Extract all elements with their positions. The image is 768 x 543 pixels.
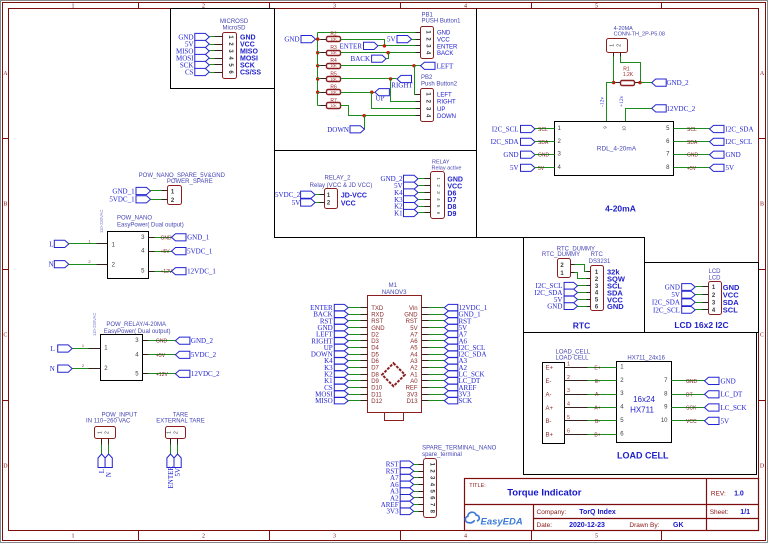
- svg-text:LEFT: LEFT: [437, 62, 454, 70]
- svg-text:POW_RELAY/4-20MA: POW_RELAY/4-20MA: [106, 322, 166, 328]
- svg-text:I2C_SCL: I2C_SCL: [492, 125, 519, 133]
- svg-text:E-: E-: [595, 379, 600, 385]
- svg-text:5V: 5V: [174, 468, 182, 477]
- svg-text:1.0: 1.0: [734, 490, 744, 497]
- svg-text:RELAY_2: RELAY_2: [325, 176, 352, 182]
- svg-text:D7: D7: [371, 366, 379, 372]
- group box load-cell section: [524, 333, 757, 475]
- wire R5 to RIGHT net: [341, 78, 397, 80]
- svg-text:A2: A2: [410, 366, 418, 372]
- svg-text:10K: 10K: [331, 38, 338, 42]
- svg-text:HX711_24x16: HX711_24x16: [627, 356, 665, 362]
- svg-text:2: 2: [567, 375, 570, 381]
- svg-text:5V: 5V: [410, 326, 417, 332]
- svg-text:4-20mA: 4-20mA: [605, 204, 636, 214]
- svg-text:A-: A-: [595, 392, 600, 398]
- svg-text:10K: 10K: [331, 77, 338, 81]
- group box RTC section: [477, 237, 524, 239]
- svg-text:D8: D8: [371, 372, 379, 378]
- svg-text:10: 10: [661, 418, 668, 424]
- svg-text:1: 1: [166, 431, 172, 434]
- svg-text:A7: A7: [410, 332, 418, 338]
- svg-text:10K: 10K: [331, 91, 338, 95]
- svg-text:D9: D9: [371, 379, 379, 385]
- svg-text:SDA: SDA: [538, 140, 549, 146]
- svg-text:GND: GND: [538, 153, 550, 159]
- svg-text:CS: CS: [185, 68, 194, 76]
- svg-text:A: A: [3, 71, 8, 77]
- resistor R2 10K: [321, 39, 327, 41]
- svg-text:L: L: [51, 345, 55, 353]
- svg-text:R5: R5: [330, 71, 337, 77]
- svg-text:N: N: [48, 261, 53, 269]
- svg-text:LCD: LCD: [708, 276, 721, 282]
- svg-text:A6: A6: [410, 339, 418, 345]
- svg-text:PUSH Button1: PUSH Button1: [422, 19, 462, 25]
- svg-text:GND: GND: [607, 302, 624, 311]
- svg-text:IN 110~260 VAC: IN 110~260 VAC: [86, 418, 131, 424]
- group box LCD section: [645, 263, 759, 333]
- svg-text:BACK: BACK: [437, 51, 453, 57]
- svg-text:Torque Indicator: Torque Indicator: [507, 488, 582, 499]
- svg-text:GND: GND: [721, 377, 736, 385]
- svg-text:LCD 16x2 I2C: LCD 16x2 I2C: [674, 320, 728, 330]
- svg-text:R3: R3: [330, 45, 337, 51]
- M1 right pin A2 net A2: [422, 367, 429, 369]
- svg-text:5V: 5V: [538, 166, 545, 172]
- svg-text:GND_1: GND_1: [187, 234, 210, 242]
- M1 right pin A1 net LC_SCK: [422, 374, 429, 376]
- svg-text:TorQ Index: TorQ Index: [579, 509, 616, 516]
- svg-text:E+: E+: [546, 366, 554, 372]
- net LEFT tag: [421, 62, 436, 69]
- svg-text:VCC: VCC: [437, 38, 450, 44]
- svg-text:VCC: VCC: [240, 42, 255, 49]
- svg-text:Drawn By:: Drawn By:: [629, 522, 659, 529]
- svg-text:ENTER: ENTER: [437, 44, 458, 50]
- svg-text:B: B: [3, 202, 7, 208]
- svg-text:MicroSD: MicroSD: [222, 26, 246, 32]
- net 5V tag vertical: [177, 439, 179, 445]
- wire GND bus vertical: [317, 33, 319, 106]
- svg-text:B+: B+: [546, 432, 554, 438]
- svg-text:1: 1: [72, 4, 75, 10]
- resistor R6 10K: [318, 92, 327, 94]
- svg-text:+5V: +5V: [687, 166, 697, 172]
- M1 right pin 3V3 net 3V3: [422, 394, 429, 396]
- svg-text:+5V: +5V: [161, 249, 171, 255]
- svg-text:REF: REF: [406, 386, 418, 392]
- IC RDL_4-20mA: [555, 122, 674, 176]
- svg-text:2: 2: [105, 431, 111, 434]
- group box relay section: [275, 151, 477, 238]
- svg-text:4: 4: [464, 534, 467, 540]
- svg-text:A3: A3: [410, 359, 418, 365]
- svg-text:spare_terminal: spare_terminal: [422, 452, 462, 458]
- group box push-button section: [274, 9, 276, 151]
- svg-text:D11: D11: [371, 392, 382, 398]
- svg-text:PB2: PB2: [421, 75, 433, 81]
- svg-text:BACK: BACK: [351, 55, 370, 63]
- svg-text:LC_SCK: LC_SCK: [721, 404, 747, 412]
- M1 right pin A6 net A6: [422, 340, 429, 342]
- svg-text:10K: 10K: [331, 64, 338, 68]
- svg-text:D3: D3: [371, 339, 379, 345]
- svg-text:B+: B+: [594, 432, 600, 438]
- svg-text:B-: B-: [546, 419, 552, 425]
- svg-text:12VDC_2: 12VDC_2: [191, 370, 220, 378]
- svg-text:UP: UP: [376, 95, 385, 103]
- wire R7 to DOWN net: [341, 106, 416, 116]
- M1 right pin A0 net LC_DT: [422, 380, 429, 382]
- svg-text:MISO: MISO: [240, 49, 258, 56]
- svg-text:SPARE_TERMINAL_NANO: SPARE_TERMINAL_NANO: [422, 446, 497, 452]
- svg-text:GND: GND: [726, 151, 741, 159]
- svg-text:I2C_SCL: I2C_SCL: [653, 306, 680, 314]
- NANOV3 diamond logo: [382, 363, 405, 386]
- svg-text:LEFT: LEFT: [437, 92, 452, 98]
- M1 right pin 5V net 5V: [422, 327, 429, 329]
- wire conn pin1 down: [613, 53, 615, 57]
- svg-text:1: 1: [97, 431, 103, 434]
- svg-text:SCK: SCK: [240, 63, 255, 70]
- svg-text:12VDC_1: 12VDC_1: [187, 268, 216, 276]
- svg-text:+5V: +5V: [156, 353, 166, 359]
- svg-text:1: 1: [72, 534, 75, 540]
- svg-text:D9: D9: [447, 211, 456, 218]
- svg-text:5V: 5V: [510, 164, 519, 172]
- svg-text:POWER_SPARE: POWER_SPARE: [167, 179, 213, 185]
- IC RTC DS3231: [591, 266, 604, 311]
- svg-text:5VDC_1: 5VDC_1: [109, 196, 135, 204]
- NANOV3 usb notch: [385, 413, 404, 421]
- svg-text:SCL: SCL: [723, 306, 738, 315]
- svg-text:3: 3: [567, 388, 570, 394]
- resistor R4 10K: [318, 65, 327, 67]
- svg-text:+12V: +12V: [156, 372, 168, 378]
- svg-text:LOAD CELL: LOAD CELL: [617, 451, 669, 461]
- svg-text:LOAD_CELL: LOAD_CELL: [556, 349, 591, 355]
- svg-text:4: 4: [464, 4, 467, 10]
- svg-text:E+: E+: [594, 366, 600, 372]
- wire RIGHT to PB2 pin2: [391, 79, 416, 102]
- svg-text:12VDC_2: 12VDC_2: [667, 105, 696, 113]
- svg-text:R6: R6: [330, 85, 337, 91]
- svg-text:EXTERNAL TARE: EXTERNAL TARE: [156, 418, 205, 424]
- svg-text:A4: A4: [410, 352, 418, 358]
- svg-text:ENTER: ENTER: [339, 42, 362, 50]
- svg-text:A: A: [760, 71, 765, 77]
- svg-text:B: B: [760, 202, 764, 208]
- svg-text:D: D: [760, 464, 765, 470]
- wire R2 to ENTER net: [341, 40, 385, 46]
- svg-text:A+: A+: [594, 406, 600, 412]
- svg-text:RTC_DUMMY: RTC_DUMMY: [542, 252, 580, 258]
- resistor R3 10K: [318, 52, 327, 54]
- svg-text:Relay (VCC & JD VCC): Relay (VCC & JD VCC): [310, 183, 373, 189]
- svg-text:EasyPower( Dual output): EasyPower( Dual output): [117, 222, 184, 228]
- svg-text:-12v: -12v: [600, 97, 606, 107]
- svg-text:B-: B-: [595, 419, 600, 425]
- svg-text:Vin: Vin: [409, 306, 418, 312]
- svg-text:D5: D5: [371, 352, 379, 358]
- svg-text:3V3: 3V3: [387, 508, 400, 516]
- svg-text:A+: A+: [546, 406, 554, 412]
- resistor R7 10K: [318, 105, 327, 107]
- junction dots on GND bus: [316, 37, 319, 40]
- svg-text:R4: R4: [330, 58, 337, 64]
- svg-text:UP: UP: [437, 107, 445, 113]
- svg-text:GND: GND: [687, 153, 699, 159]
- net GND_2 tag: [641, 82, 652, 84]
- svg-text:GND: GND: [371, 326, 385, 332]
- svg-text:A1: A1: [410, 372, 418, 378]
- EasyEDA logo: [465, 512, 479, 523]
- svg-text:GND: GND: [503, 151, 518, 159]
- svg-text:10: 10: [622, 126, 627, 131]
- svg-text:DS3231: DS3231: [589, 259, 611, 265]
- svg-text:D6: D6: [371, 359, 379, 365]
- svg-text:+12v: +12v: [619, 95, 625, 107]
- svg-text:E-: E-: [546, 379, 552, 385]
- svg-text:Relay active: Relay active: [432, 166, 462, 172]
- svg-text:I2C_SDA: I2C_SDA: [726, 125, 754, 133]
- M1 right pin RST net RST: [422, 320, 429, 322]
- svg-text:+12V: +12V: [161, 269, 173, 275]
- svg-text:POW_NANO: POW_NANO: [117, 215, 152, 221]
- M1 right pin A3 net A3: [422, 360, 429, 362]
- svg-text:1.2K: 1.2K: [623, 72, 634, 78]
- svg-text:DOWN: DOWN: [327, 126, 349, 134]
- svg-text:6: 6: [567, 428, 570, 434]
- M1 right pin REF net AREF: [422, 387, 429, 389]
- svg-text:GND: GND: [437, 31, 451, 37]
- IC HX711: [617, 362, 672, 443]
- M1 right pin D13 net SCK: [422, 400, 429, 402]
- svg-text:D: D: [3, 464, 8, 470]
- svg-text:1/1: 1/1: [740, 509, 750, 516]
- svg-text:2020-12-23: 2020-12-23: [569, 522, 605, 529]
- wire LEFT to PB2 pin1: [415, 66, 416, 95]
- svg-text:16x24: 16x24: [633, 395, 655, 404]
- svg-text:GND: GND: [240, 35, 256, 42]
- svg-text:K1: K1: [394, 209, 403, 217]
- svg-text:R2: R2: [330, 32, 337, 38]
- wire RTC_DUMMY pin2 to DS3231 pin1: [571, 264, 575, 266]
- wire 12VDC_2 to RDL pin10: [626, 109, 652, 122]
- svg-text:MICROSD: MICROSD: [220, 19, 249, 25]
- svg-text:MISO: MISO: [315, 397, 333, 405]
- svg-text:GND: GND: [686, 379, 698, 385]
- svg-text:N: N: [105, 472, 113, 477]
- junction R1 left: [612, 81, 615, 84]
- wire UP to PB2 pin3: [372, 93, 416, 109]
- svg-text:3: 3: [333, 4, 336, 10]
- svg-text:10K: 10K: [331, 51, 338, 55]
- svg-text:TARE: TARE: [173, 412, 189, 418]
- svg-text:5VDC_1: 5VDC_1: [187, 248, 213, 256]
- wire R3 to PB1 pin4: [341, 52, 416, 54]
- net L tag vertical: [101, 439, 103, 445]
- svg-text:110-230VAC: 110-230VAC: [99, 210, 104, 233]
- wire conn pin2 to R1 right: [620, 53, 622, 57]
- svg-text:I2C_SCL: I2C_SCL: [726, 138, 753, 146]
- svg-text:HX711: HX711: [630, 405, 654, 414]
- M1 right pin GND net GND_1: [422, 314, 429, 316]
- title block frame: [465, 479, 759, 531]
- svg-text:RTC: RTC: [573, 320, 590, 330]
- svg-text:CS/SS: CS/SS: [240, 70, 261, 77]
- svg-text:VCC: VCC: [341, 201, 356, 208]
- svg-text:A0: A0: [410, 379, 418, 385]
- svg-text:DOWN: DOWN: [437, 114, 456, 120]
- svg-text:D2: D2: [371, 332, 379, 338]
- svg-text:JD-VCC: JD-VCC: [341, 193, 367, 200]
- svg-text:GND_2: GND_2: [667, 79, 690, 87]
- net DOWN tag: [364, 116, 366, 130]
- M1 right pin Vin net 12VDC_1: [422, 307, 429, 309]
- svg-text:SCL: SCL: [687, 127, 697, 133]
- svg-text:GND: GND: [161, 235, 173, 241]
- svg-text:2: 2: [617, 44, 623, 47]
- svg-text:D12: D12: [371, 399, 383, 405]
- svg-text:RIGHT: RIGHT: [437, 100, 456, 106]
- net N tag vertical: [108, 439, 110, 445]
- svg-text:I2C_SDA: I2C_SDA: [491, 138, 519, 146]
- svg-text:Date:: Date:: [537, 522, 553, 529]
- svg-text:SCK: SCK: [686, 406, 697, 412]
- svg-text:5: 5: [595, 534, 598, 540]
- svg-text:GND_2: GND_2: [191, 337, 214, 345]
- svg-text:VCC: VCC: [686, 419, 697, 425]
- svg-text:R7: R7: [330, 98, 337, 104]
- svg-text:4: 4: [567, 402, 570, 408]
- svg-text:GND: GND: [284, 36, 299, 44]
- net ENTER tag vertical: [170, 439, 172, 445]
- svg-text:Company:: Company:: [537, 509, 567, 516]
- net 12VDC_2 tag: [652, 105, 667, 112]
- svg-text:3: 3: [333, 534, 336, 540]
- svg-text:GK: GK: [673, 522, 684, 529]
- svg-text:LOAD CELL: LOAD CELL: [556, 356, 590, 362]
- net RIGHT tag: [397, 75, 412, 82]
- svg-text:RTC: RTC: [591, 252, 604, 258]
- svg-text:SCL: SCL: [538, 127, 548, 133]
- wire RTC_DUMMY pin1 to DS3231 pin2: [571, 272, 575, 274]
- svg-text:REV:: REV:: [711, 490, 726, 497]
- resistor R5 10K: [318, 78, 327, 80]
- svg-text:5V: 5V: [721, 417, 730, 425]
- svg-text:110-230VAC: 110-230VAC: [92, 313, 97, 336]
- svg-text:TITLE:: TITLE:: [469, 483, 486, 489]
- svg-text:C: C: [760, 333, 764, 339]
- svg-text:10K: 10K: [331, 104, 338, 108]
- svg-text:5: 5: [595, 4, 598, 10]
- svg-text:Push Button2: Push Button2: [421, 81, 458, 87]
- svg-text:PB1: PB1: [422, 13, 434, 19]
- svg-text:LCD: LCD: [708, 269, 721, 275]
- M1 right pin A5 net I2C_SCL: [422, 347, 429, 349]
- svg-text:2: 2: [202, 534, 205, 540]
- svg-text:GND_1: GND_1: [112, 187, 135, 195]
- svg-text:N: N: [50, 365, 55, 373]
- svg-text:POW_INPUT: POW_INPUT: [101, 412, 137, 418]
- svg-text:RST: RST: [406, 319, 418, 325]
- svg-text:MOSI: MOSI: [240, 56, 258, 63]
- svg-text:5V: 5V: [726, 164, 735, 172]
- svg-text:L: L: [49, 240, 53, 248]
- svg-text:3V3: 3V3: [407, 392, 418, 398]
- svg-text:A5: A5: [410, 346, 418, 352]
- svg-text:5VDC_2: 5VDC_2: [191, 351, 217, 359]
- svg-text:TXD: TXD: [371, 306, 384, 312]
- net UP tag: [375, 89, 390, 96]
- wire to PB1 pin1: [318, 32, 416, 34]
- svg-text:5V: 5V: [292, 199, 301, 207]
- svg-text:M1: M1: [389, 283, 398, 289]
- svg-text:D13: D13: [407, 399, 419, 405]
- svg-text:D4: D4: [371, 346, 379, 352]
- svg-text:2: 2: [173, 431, 179, 434]
- svg-text:C: C: [3, 333, 7, 339]
- svg-text:Sheet:: Sheet:: [710, 509, 729, 516]
- wire -12v to RDL pin9: [607, 83, 614, 122]
- M1 right pin A4 net I2C_SDA: [422, 354, 429, 356]
- svg-text:EasyEDA: EasyEDA: [481, 517, 523, 528]
- svg-text:5V: 5V: [387, 36, 396, 44]
- junction R1 right: [638, 81, 641, 84]
- wire R6 to UP net: [341, 92, 375, 94]
- svg-text:GND: GND: [547, 303, 562, 311]
- svg-text:GND: GND: [404, 312, 418, 318]
- M1 right pin A7 net A7: [422, 334, 429, 336]
- svg-text:SCK: SCK: [459, 397, 473, 405]
- group box MICROSD section: [171, 9, 275, 89]
- svg-text:RXD: RXD: [371, 312, 384, 318]
- svg-text:CONN-TH_2P-P5.08: CONN-TH_2P-P5.08: [614, 32, 665, 38]
- svg-text:1: 1: [567, 362, 570, 368]
- svg-text:RDL_4-20mA: RDL_4-20mA: [597, 146, 637, 153]
- svg-text:D10: D10: [371, 386, 383, 392]
- svg-text:SDA: SDA: [687, 140, 698, 146]
- svg-text:DT: DT: [686, 392, 693, 398]
- svg-text:RIGHT: RIGHT: [391, 82, 413, 90]
- svg-text:GND: GND: [156, 339, 168, 345]
- svg-text:LC_DT: LC_DT: [721, 391, 744, 399]
- wire R4 to LEFT net: [341, 65, 421, 67]
- svg-text:1: 1: [609, 44, 615, 47]
- svg-text:RST: RST: [371, 319, 383, 325]
- svg-text:A-: A-: [546, 392, 552, 398]
